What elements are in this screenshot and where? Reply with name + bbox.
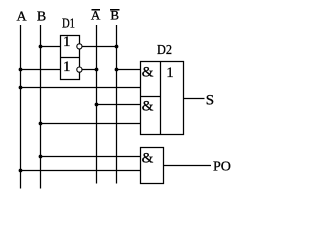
net label A-bar bbox=[91, 8, 101, 23]
wire D1 out2 to A-bar bbox=[82, 69, 97, 71]
junction dot B row6 bbox=[39, 155, 43, 159]
wire D2 output to S bbox=[184, 98, 205, 100]
wire A to D2 gate1 input2 bbox=[21, 87, 141, 89]
junction dot B row1 bbox=[39, 45, 43, 49]
junction dot A-bar row4 bbox=[95, 103, 99, 107]
net label B-bar bbox=[110, 8, 119, 23]
svg-text:&: & bbox=[142, 65, 154, 81]
svg-text:S: S bbox=[206, 92, 214, 108]
wire B to D2 gate2 input2 bbox=[41, 123, 141, 125]
wire A-bar to D2 gate2 input1 bbox=[97, 104, 141, 106]
svg-text:&: & bbox=[142, 99, 154, 115]
bus A vertical bbox=[20, 25, 22, 189]
svg-text:B: B bbox=[37, 9, 46, 24]
wire A to PO gate input2 bbox=[21, 170, 141, 172]
svg-text:D1: D1 bbox=[62, 17, 75, 32]
and gate PO block bbox=[141, 148, 164, 184]
wire B to D1 input1 bbox=[41, 46, 61, 48]
junction dot A row7 bbox=[19, 169, 23, 173]
bus B vertical bbox=[40, 25, 42, 189]
junction dot B-bar row2 bbox=[115, 68, 119, 72]
svg-text:&: & bbox=[142, 151, 154, 167]
inverter block D1 bbox=[61, 36, 80, 80]
junction dot A row3 bbox=[19, 86, 23, 90]
junction dot B-bar row1 bbox=[115, 45, 119, 49]
svg-text:1: 1 bbox=[63, 34, 71, 50]
and-or block D2 bbox=[141, 62, 184, 135]
wire D1 out1 to B-bar bbox=[82, 46, 117, 48]
wire B-bar to D2 gate1 input1 bbox=[117, 69, 141, 71]
junction dot A-bar row2 bbox=[95, 68, 99, 72]
svg-text:1: 1 bbox=[63, 59, 71, 75]
svg-text:1: 1 bbox=[166, 65, 174, 81]
D1 output bubble 1 bbox=[77, 44, 82, 49]
wire B to PO gate input1 bbox=[41, 156, 141, 158]
svg-text:D2: D2 bbox=[157, 43, 172, 58]
D1 output bubble 2 bbox=[77, 67, 82, 72]
junction dot B row5 bbox=[39, 122, 43, 126]
bus A-bar vertical bbox=[96, 25, 98, 184]
wire PO gate output to PO bbox=[164, 165, 212, 167]
svg-text:PO: PO bbox=[213, 160, 231, 175]
bus B-bar vertical bbox=[116, 25, 118, 184]
junction dot A row2 bbox=[19, 68, 23, 72]
wire A to D1 input2 bbox=[21, 69, 61, 71]
svg-text:A: A bbox=[16, 9, 27, 24]
